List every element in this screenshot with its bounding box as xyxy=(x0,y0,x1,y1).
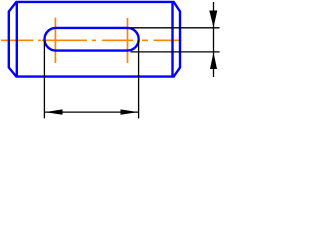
extension line bottom-left (from slot left end) xyxy=(43,42,45,118)
extension line right-upper (from slot top edge) xyxy=(131,27,220,29)
arrowhead right-top (points down at upper extension line) xyxy=(209,11,217,28)
chamfer edge line left xyxy=(16,2,18,77)
dimension line right (slot width, vertical) xyxy=(213,2,215,77)
vertical centerline left (slot left arc axis) xyxy=(54,18,56,63)
slot (stadium/obround, blue) xyxy=(45,28,139,51)
chamfer edge line right xyxy=(171,2,173,77)
plate outline (chamfered rectangle, blue) xyxy=(9,2,180,77)
arrowhead bottom-left xyxy=(45,109,63,114)
vertical centerline right (slot right arc axis) xyxy=(127,18,129,63)
extension line right-lower (from slot bottom edge) xyxy=(131,51,220,53)
horizontal centerline (orange dash-dot) xyxy=(1,39,182,41)
arrowhead right-bottom (points up at lower extension line) xyxy=(210,52,217,69)
arrowhead bottom-right xyxy=(121,109,139,114)
dimension line bottom (slot length) xyxy=(45,111,138,113)
extension line bottom-right (from slot right end) xyxy=(138,40,140,118)
